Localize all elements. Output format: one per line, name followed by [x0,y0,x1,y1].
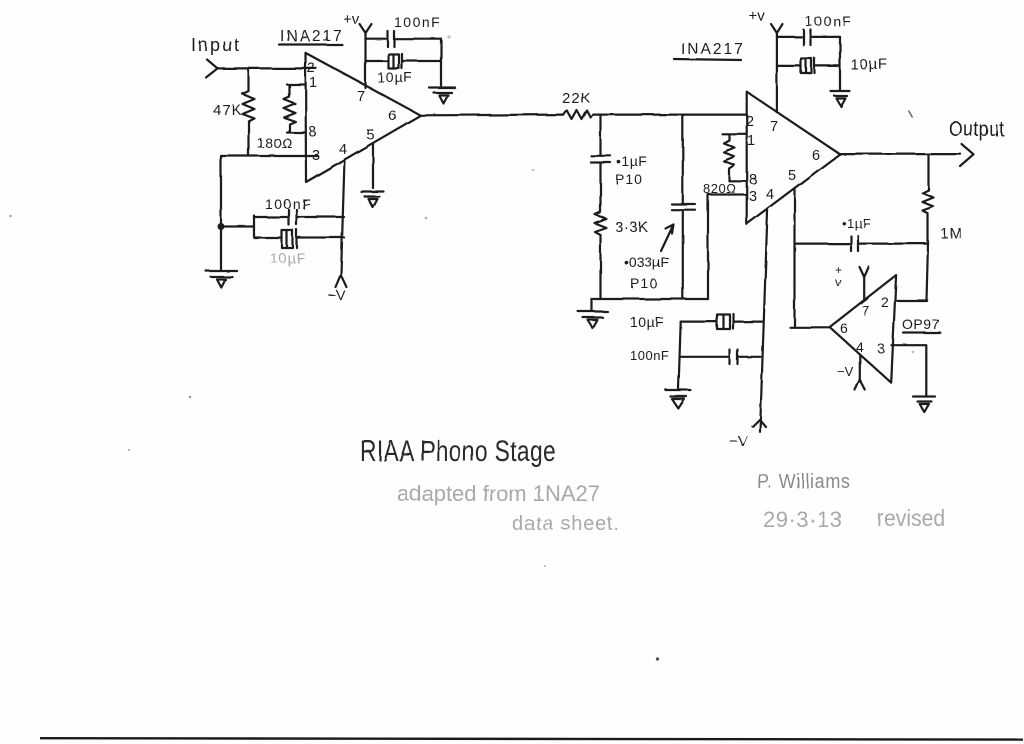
svg-text:INA217: INA217 [681,41,745,58]
svg-text:4: 4 [339,142,347,158]
svg-text:47K: 47K [213,102,243,119]
svg-text:−V: −V [328,287,346,303]
svg-text:8: 8 [308,124,316,140]
svg-text:P10: P10 [630,275,658,291]
svg-text:100nF: 100nF [394,14,441,30]
svg-text:+v: +v [343,11,360,28]
svg-text:820Ω: 820Ω [703,181,736,196]
svg-text:10µF: 10µF [377,69,413,85]
svg-text:10µF: 10µF [270,250,306,266]
svg-text:•1µF: •1µF [616,153,647,169]
svg-text:P10: P10 [615,171,643,187]
svg-text:100nF: 100nF [805,13,852,29]
svg-text:v: v [835,275,841,289]
svg-text:4: 4 [766,187,774,203]
svg-text:RIAA Phono Stage: RIAA Phono Stage [360,434,556,468]
svg-text:−V: −V [837,364,854,379]
svg-text:2: 2 [746,114,754,130]
svg-text:OP97: OP97 [902,316,940,332]
svg-text:adapted from 1NA27: adapted from 1NA27 [397,481,600,506]
svg-text:P. Williams: P. Williams [757,471,851,493]
svg-text:6: 6 [812,148,820,164]
svg-text:3: 3 [877,340,885,356]
svg-text:INA217: INA217 [280,28,344,45]
svg-text:8: 8 [749,172,757,188]
svg-text:1M: 1M [940,225,963,242]
svg-text:Input: Input [191,35,241,55]
svg-text:•1µF: •1µF [842,216,871,231]
svg-text:6: 6 [388,108,396,124]
svg-text:1: 1 [747,133,755,149]
svg-text:revised: revised [877,505,945,531]
svg-text:3: 3 [312,148,320,164]
svg-text:6: 6 [840,320,848,336]
svg-text:+v: +v [749,8,766,25]
svg-text:2: 2 [881,294,889,310]
svg-text:100nF: 100nF [265,196,312,212]
svg-text:7: 7 [862,303,870,319]
svg-text:5: 5 [788,168,796,184]
svg-text:22K: 22K [562,90,592,107]
svg-text:−V: −V [729,433,748,450]
svg-text:7: 7 [770,119,778,135]
svg-text:4: 4 [856,339,864,355]
svg-text:100nF: 100nF [630,348,669,363]
svg-text:5: 5 [366,127,374,143]
svg-text:180Ω: 180Ω [257,135,293,151]
svg-text:10µF: 10µF [630,314,664,330]
svg-text:data sheet.: data sheet. [512,513,620,535]
svg-text:3·3K: 3·3K [615,219,649,236]
svg-text:Output: Output [949,118,1005,142]
svg-text:1: 1 [309,75,317,91]
svg-text:•033µF: •033µF [624,254,669,270]
svg-text:3: 3 [749,189,757,205]
svg-text:10µF: 10µF [850,56,889,73]
svg-text:29·3·13: 29·3·13 [763,507,842,532]
svg-text:7: 7 [357,89,365,105]
